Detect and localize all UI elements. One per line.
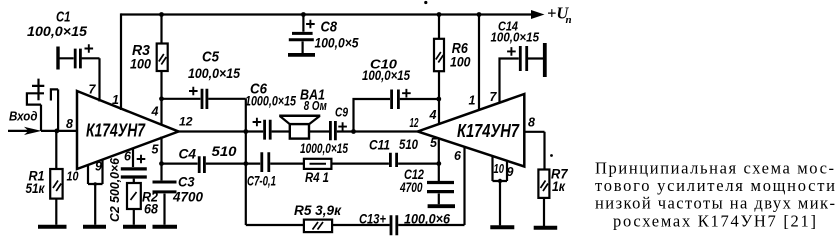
svg-text:C2 500,0×6: C2 500,0×6: [108, 157, 122, 222]
svg-text:4700: 4700: [172, 190, 203, 205]
svg-text:C3: C3: [178, 175, 195, 190]
svg-text:C5: C5: [202, 49, 220, 66]
svg-text:12: 12: [179, 117, 193, 129]
svg-text:C9: C9: [335, 105, 349, 120]
svg-text:5: 5: [152, 143, 160, 157]
svg-text:Вход: Вход: [9, 110, 38, 124]
svg-text:100,0×15: 100,0×15: [362, 67, 410, 83]
svg-text:C13+: C13+: [359, 212, 386, 227]
svg-text:5: 5: [430, 136, 438, 150]
svg-text:10: 10: [67, 170, 79, 184]
svg-text:100,0×5: 100,0×5: [315, 35, 359, 51]
svg-text:6: 6: [124, 150, 132, 164]
svg-text:низкой частоты на двух мик-: низкой частоты на двух мик-: [595, 194, 835, 213]
svg-text:100,0×15: 100,0×15: [491, 30, 540, 45]
svg-text:8: 8: [66, 117, 73, 131]
svg-text:510: 510: [399, 137, 418, 152]
svg-text:100,0×15: 100,0×15: [27, 23, 87, 39]
svg-text:1: 1: [469, 94, 476, 108]
svg-text:100: 100: [130, 56, 151, 72]
svg-text:100,0×15: 100,0×15: [188, 65, 240, 81]
svg-text:R5 3,9к: R5 3,9к: [294, 203, 342, 218]
svg-text:1000,0×15: 1000,0×15: [300, 140, 348, 156]
svg-text:4: 4: [151, 105, 159, 119]
svg-text:1к: 1к: [552, 179, 566, 194]
svg-text:К174УН7: К174УН7: [457, 120, 520, 141]
svg-text:тового усилителя мощности: тового усилителя мощности: [595, 176, 835, 195]
svg-text:100,0×6: 100,0×6: [404, 212, 450, 227]
svg-text:9: 9: [95, 160, 102, 174]
svg-text:68: 68: [144, 202, 158, 217]
svg-text:12: 12: [410, 116, 419, 130]
svg-text:4: 4: [429, 108, 437, 122]
svg-text:C7-0,1: C7-0,1: [247, 174, 276, 189]
svg-text:C11: C11: [369, 138, 390, 153]
svg-text:росхемах К174УН7 [21]: росхемах К174УН7 [21]: [613, 212, 816, 231]
svg-text:7: 7: [490, 90, 498, 104]
svg-text:К174УН7: К174УН7: [86, 120, 146, 141]
svg-text:п: п: [566, 14, 572, 26]
svg-text:10: 10: [494, 162, 505, 176]
svg-text:510: 510: [212, 144, 238, 159]
svg-text:8 Ом: 8 Ом: [304, 98, 327, 113]
svg-text:100: 100: [450, 54, 471, 70]
svg-text:C8: C8: [321, 19, 338, 36]
svg-text:1000,0×15: 1000,0×15: [245, 93, 296, 109]
svg-text:R4 1: R4 1: [305, 170, 329, 185]
svg-text:9: 9: [507, 165, 514, 179]
svg-text:1: 1: [112, 93, 119, 107]
svg-text:51к: 51к: [26, 181, 46, 196]
svg-text:4700: 4700: [399, 180, 423, 195]
svg-text:C4: C4: [179, 147, 197, 162]
svg-text:7: 7: [89, 83, 97, 97]
svg-text:8: 8: [528, 116, 535, 130]
svg-text:6: 6: [454, 149, 462, 163]
svg-text:Принципиальная схема мос-: Принципиальная схема мос-: [595, 159, 834, 178]
